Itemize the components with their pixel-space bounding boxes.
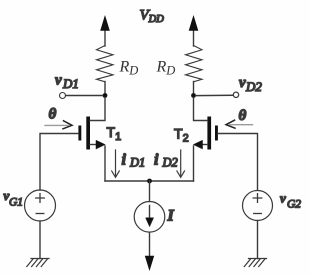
svg-text:T1: T1 bbox=[107, 124, 122, 143]
svg-text:RD: RD bbox=[119, 59, 139, 78]
svg-text:D1: D1 bbox=[129, 156, 145, 170]
svg-text:VDD: VDD bbox=[140, 8, 165, 26]
supply arrow VDD left bbox=[101, 16, 110, 46]
gate wire T2 to vG2 bbox=[218, 134, 258, 191]
wire vG2 to ground bbox=[257, 221, 259, 259]
supply arrow VDD right bbox=[189, 16, 198, 46]
voltage source vG1 bbox=[25, 190, 56, 221]
gate wire T1 to vG1 bbox=[40, 134, 78, 191]
source wire T1 down bbox=[104, 146, 106, 181]
current arrow iD1 bbox=[112, 150, 120, 177]
wire drain node to vD2 bbox=[196, 94, 233, 96]
output terminal vD1 bbox=[60, 93, 66, 99]
voltage source vG2 bbox=[243, 191, 273, 221]
svg-text:I: I bbox=[167, 208, 175, 225]
resistor RD right bbox=[186, 46, 203, 82]
svg-text:D2: D2 bbox=[245, 79, 262, 94]
svg-text:v: v bbox=[55, 73, 62, 89]
transistor T2 bbox=[194, 98, 218, 150]
svg-text:i: i bbox=[154, 152, 159, 169]
svg-text:T2: T2 bbox=[174, 126, 189, 145]
source wire T2 down bbox=[193, 146, 195, 181]
svg-text:θ: θ bbox=[49, 107, 57, 123]
wire resistor left bottom to drain node bbox=[104, 82, 106, 96]
junction node tail bbox=[147, 179, 152, 184]
current arrow iD2 bbox=[177, 150, 185, 177]
junction node drain 2 bbox=[191, 93, 196, 98]
junction node drain 1 bbox=[103, 93, 108, 98]
input arrow theta right bbox=[226, 120, 253, 128]
svg-text:D2: D2 bbox=[162, 156, 178, 170]
input arrow theta left bbox=[45, 121, 72, 129]
svg-text:D1: D1 bbox=[62, 76, 79, 91]
svg-text:v: v bbox=[280, 191, 286, 206]
output terminal vD2 bbox=[233, 92, 238, 97]
resistor RD left bbox=[97, 46, 114, 82]
wire resistor right bottom to drain node bbox=[193, 82, 195, 96]
common source rail bbox=[105, 180, 194, 182]
current source I bbox=[134, 202, 165, 233]
negative supply arrow bbox=[145, 232, 154, 270]
svg-text:G2: G2 bbox=[287, 199, 301, 211]
svg-text:RD: RD bbox=[156, 59, 176, 78]
ground right bbox=[244, 259, 266, 267]
svg-text:G1: G1 bbox=[9, 197, 23, 209]
ground left bbox=[27, 259, 49, 267]
wire tail node to current source bbox=[149, 181, 151, 202]
wire vD1 to drain node bbox=[66, 95, 103, 97]
svg-text:θ: θ bbox=[239, 108, 247, 124]
svg-text:v: v bbox=[239, 75, 246, 91]
svg-text:i: i bbox=[122, 152, 127, 169]
wire vG1 to ground bbox=[39, 221, 41, 259]
transistor T1 bbox=[78, 98, 105, 150]
